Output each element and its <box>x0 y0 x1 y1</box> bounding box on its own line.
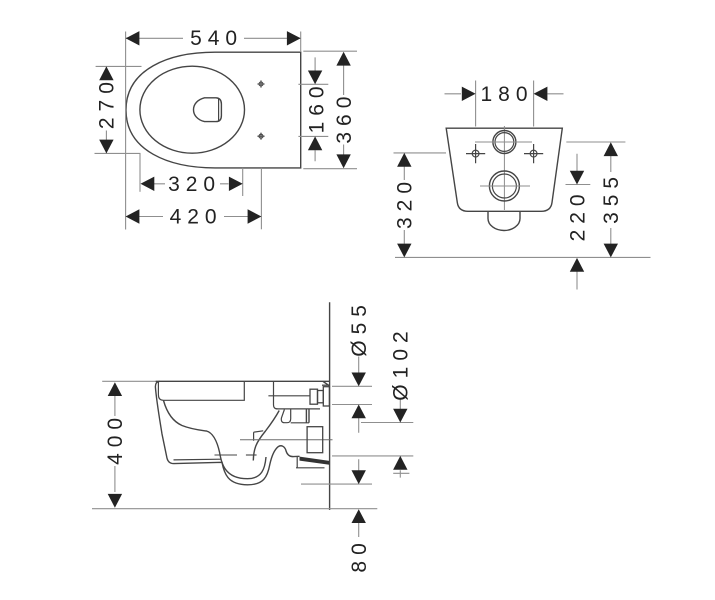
svg-text:80: 80 <box>348 537 371 572</box>
svg-text:160: 160 <box>306 80 329 133</box>
dim O102 extension top <box>361 422 413 424</box>
drain opening inner edge <box>218 99 220 121</box>
rear floor line <box>395 256 651 258</box>
toilet plan outer outline <box>126 52 301 168</box>
dim O55 extension top <box>332 385 372 387</box>
dim O102 <box>390 325 413 477</box>
dim 360 <box>333 52 356 168</box>
dim 160 extension line bottom <box>298 135 328 137</box>
flush channel pocket <box>281 410 290 423</box>
svg-text:Ø55: Ø55 <box>348 299 371 357</box>
dim 180 <box>445 83 564 106</box>
bottom inner line <box>174 458 222 461</box>
dim 80 <box>348 459 371 572</box>
side floor line <box>92 508 377 510</box>
dim 540 extension line right <box>300 32 302 53</box>
crosshair level extension line <box>394 152 447 154</box>
dim 220 <box>566 154 589 290</box>
svg-text:360: 360 <box>333 91 356 144</box>
outlet wedge <box>296 457 329 468</box>
flush boss bottom line <box>268 395 310 397</box>
dim 355 extension line top <box>566 141 625 143</box>
top circle outer <box>493 131 516 154</box>
svg-text:320: 320 <box>394 176 417 229</box>
seat profile rectangle <box>158 381 244 400</box>
dim 400 <box>104 382 127 508</box>
weir flap <box>254 431 264 441</box>
wall line <box>329 302 331 510</box>
dim O55 extension bottom <box>332 404 372 406</box>
outlet pipe centerline <box>240 439 333 441</box>
top circle inner <box>495 133 514 152</box>
dim 270 extension line top <box>96 65 142 67</box>
svg-text:270: 270 <box>96 76 119 129</box>
crosshair hole left <box>466 144 485 163</box>
dim 320 extension line left <box>139 153 141 192</box>
bowl back wall S-curve <box>253 411 279 461</box>
drain opening outer <box>194 98 222 122</box>
dim 180 extension line right <box>533 81 535 127</box>
svg-text:355: 355 <box>600 171 623 224</box>
dim 360 extension line bottom <box>303 168 357 170</box>
side body front edge with bottom edge, trap outer wall and outlet hump <box>155 381 299 485</box>
svg-text:Ø102: Ø102 <box>390 325 413 400</box>
svg-text:540: 540 <box>190 27 243 50</box>
toilet plan inner rim ellipse <box>140 66 245 153</box>
inlet pipe flange stack <box>310 385 329 406</box>
dim 360 extension line top <box>303 50 357 52</box>
dim 320 rear <box>394 153 417 258</box>
rear body outline <box>446 128 562 211</box>
svg-text:320: 320 <box>168 173 221 196</box>
screw hole bottom <box>257 133 264 140</box>
crosshair hole right <box>524 144 543 163</box>
dim 355 <box>600 142 623 257</box>
flush down pipe double line <box>306 409 309 423</box>
outlet pipe box <box>307 427 323 453</box>
top circle centerline <box>475 141 532 143</box>
bowl back vertical <box>274 381 278 409</box>
dim 420 extension line right <box>260 168 262 229</box>
side body top edge <box>156 381 330 386</box>
dim 80 extension line <box>301 483 372 485</box>
dim 160 extension line top <box>298 83 328 85</box>
svg-text:220: 220 <box>566 188 589 241</box>
dim 420 <box>126 206 262 229</box>
dim O102 extension bottom <box>332 455 413 457</box>
rear vertical centerline <box>503 126 505 210</box>
dim 400 extension line top <box>102 380 155 382</box>
dim 220 extension line <box>566 184 591 186</box>
dim 320 extension line right <box>242 168 244 196</box>
dim 160 <box>306 57 329 161</box>
trap water line right <box>246 454 257 456</box>
svg-text:180: 180 <box>480 83 533 106</box>
dim 180 extension line left <box>475 81 477 127</box>
dim 540 <box>126 27 301 50</box>
pocket shelf line <box>291 422 309 424</box>
rear outlet tab <box>488 212 520 231</box>
dim O55 <box>348 299 371 433</box>
big circle centerline <box>480 185 530 187</box>
trap water line left <box>215 454 238 456</box>
big circle outer <box>489 171 519 201</box>
rim back shelf line <box>276 408 320 410</box>
outlet below vertical <box>296 457 298 468</box>
bowl interior front curve with trap inner wall <box>164 401 267 479</box>
dim 320 <box>141 173 243 196</box>
dim 270 extension line bottom <box>95 152 140 154</box>
svg-text:400: 400 <box>104 412 127 465</box>
dim 540 extension line left <box>125 32 127 230</box>
dim 270 <box>96 66 119 153</box>
screw hole top <box>257 80 264 87</box>
svg-text:420: 420 <box>170 206 223 229</box>
big circle inner <box>492 174 516 198</box>
